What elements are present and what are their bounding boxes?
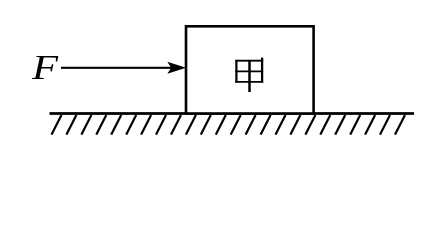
- block (labelled 甲): [186, 26, 314, 113]
- right vertical: [261, 58, 263, 83]
- glyph 甲 drawn as strokes: [235, 58, 263, 92]
- force arrow shaft: [61, 67, 174, 69]
- middle horizontal: [235, 70, 263, 72]
- ground hatching: [52, 115, 406, 135]
- svg-text:F: F: [31, 48, 59, 87]
- ground line: [50, 112, 415, 115]
- force arrow head: [167, 62, 186, 74]
- left vertical: [235, 60, 237, 83]
- bottom horizontal: [235, 81, 263, 83]
- top horizontal: [235, 60, 263, 62]
- center vertical: [248, 60, 251, 92]
